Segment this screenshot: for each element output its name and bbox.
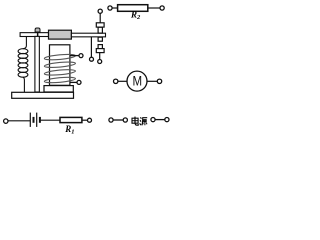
- coil bobbin flange: [44, 86, 73, 92]
- lower fixed contact stem: [98, 45, 102, 49]
- label 电 drawn as strokes: [132, 117, 138, 126]
- power terminal B: [123, 118, 127, 122]
- wire: [8, 120, 30, 122]
- wire: [147, 80, 157, 82]
- power terminal A: [109, 118, 113, 122]
- motor terminal left: [114, 79, 118, 83]
- coil top terminal: [79, 54, 83, 58]
- moving contact terminal: [90, 57, 94, 61]
- moving contact wire: [90, 37, 92, 57]
- wire: [112, 7, 118, 9]
- wire: [155, 119, 165, 121]
- coil top lead: [70, 55, 79, 57]
- resistor R1 body: [60, 117, 82, 122]
- coil bottom lead: [70, 81, 77, 83]
- lower contact terminal: [98, 60, 102, 64]
- armature: [49, 30, 72, 39]
- relay K: lever bar: [20, 33, 48, 37]
- relay support column: [35, 36, 39, 92]
- resistor R2 terminal left: [108, 6, 112, 10]
- upper fixed contact plate: [96, 23, 104, 27]
- battery cell 1 short plate: [33, 117, 35, 123]
- lower fixed contact plate: [96, 49, 104, 53]
- upper contact wire: [99, 13, 101, 23]
- wire: [113, 119, 123, 121]
- iron core: [50, 45, 70, 86]
- resistor R2 terminal right: [160, 6, 164, 10]
- coil bottom terminal: [77, 80, 81, 84]
- upper contact terminal: [98, 9, 102, 13]
- power terminal D: [165, 118, 169, 122]
- resistor R2 body: [118, 5, 148, 12]
- battery cell 1 long plate: [29, 113, 31, 127]
- lower contact wire: [99, 53, 101, 60]
- svg-text:M: M: [133, 73, 143, 89]
- relay base: [12, 92, 74, 98]
- spring: [18, 49, 28, 77]
- spring bottom link: [23, 77, 24, 92]
- wire: [148, 7, 160, 9]
- motor terminal right: [157, 79, 161, 83]
- battery terminal right: [88, 118, 92, 122]
- relay pivot block: [35, 28, 40, 32]
- battery terminal left: [4, 119, 8, 123]
- wire: [40, 119, 60, 121]
- wire: [82, 119, 88, 121]
- coil winding: [44, 53, 75, 83]
- relay pivot pin: [37, 33, 39, 37]
- battery cell 2 short plate: [39, 117, 41, 123]
- wire: [118, 80, 127, 82]
- spring top link: [23, 37, 26, 49]
- moving contact bar: [71, 33, 105, 37]
- label 源 drawn as strokes: [140, 117, 148, 125]
- upper fixed contact stem: [98, 27, 102, 33]
- power terminal C: [151, 118, 155, 122]
- battery cell 2 long plate: [36, 113, 38, 127]
- moving contact lower stem: [98, 37, 102, 41]
- motor M: [127, 71, 147, 91]
